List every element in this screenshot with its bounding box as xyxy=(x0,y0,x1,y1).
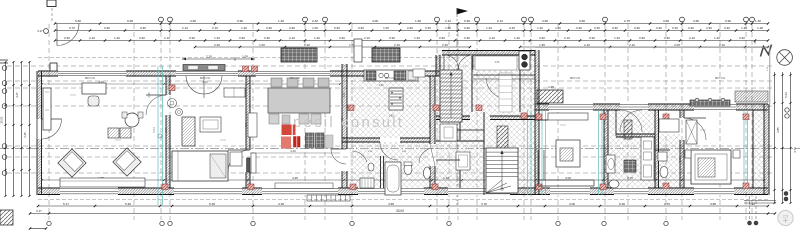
svg-text:0.90: 0.90 xyxy=(139,36,145,40)
svg-text:2.10: 2.10 xyxy=(289,36,295,40)
red hatched columns xyxy=(169,85,175,91)
double door bedroom2 top xyxy=(186,76,204,94)
svg-text:5.60: 5.60 xyxy=(75,19,81,23)
svg-text:3.70: 3.70 xyxy=(481,202,487,206)
hatch corner block bottom-left xyxy=(0,210,13,225)
top-left column marker xyxy=(47,0,56,7)
white landing strip xyxy=(499,73,512,112)
hatch kitchen floor xyxy=(350,76,430,138)
top dimension chain line 4 xyxy=(195,46,470,48)
svg-text:0.45: 0.45 xyxy=(509,26,515,30)
svg-text:0.17: 0.17 xyxy=(36,209,42,213)
windows top wall left xyxy=(58,70,126,76)
svg-text:BRH 0.90: BRH 0.90 xyxy=(385,78,396,80)
teal section strip left xyxy=(157,66,159,205)
tv board left wall xyxy=(43,88,51,130)
windows bottom wall xyxy=(60,187,118,195)
vanity counter bath xyxy=(641,137,654,180)
hatch top right corner slab xyxy=(735,91,768,102)
svg-text:0.96: 0.96 xyxy=(266,26,272,30)
svg-text:2.05: 2.05 xyxy=(495,61,500,64)
svg-text:1.20: 1.20 xyxy=(486,26,492,30)
svg-text:0.90: 0.90 xyxy=(245,122,248,127)
svg-text:0.90: 0.90 xyxy=(656,26,662,30)
svg-text:BRH 0.90: BRH 0.90 xyxy=(290,78,301,80)
svg-text:0.95: 0.95 xyxy=(127,19,133,23)
svg-text:4.45: 4.45 xyxy=(292,176,298,180)
stair block top wall xyxy=(442,51,535,56)
svg-text:0.90: 0.90 xyxy=(334,26,340,30)
svg-text:3.66: 3.66 xyxy=(663,19,669,23)
bottom dimension chain line 2 xyxy=(30,213,775,215)
wall y150 small right xyxy=(655,149,670,151)
svg-text:1.20: 1.20 xyxy=(555,26,561,30)
porch bedroom2 xyxy=(183,65,225,71)
wall bedroom2-dining x246 xyxy=(246,76,250,150)
svg-text:0.90: 0.90 xyxy=(358,26,364,30)
svg-text:2.70: 2.70 xyxy=(627,176,633,180)
svg-text:0.45: 0.45 xyxy=(425,26,431,30)
svg-text:0.30: 0.30 xyxy=(619,202,625,206)
red columns at dining wall top xyxy=(243,66,249,72)
svg-text:0.90: 0.90 xyxy=(576,26,582,30)
sideboard dining bottom xyxy=(275,183,333,189)
toilet right of tub xyxy=(404,164,412,175)
svg-text:0.90: 0.90 xyxy=(535,147,538,152)
study chair hatched xyxy=(560,148,573,161)
svg-text:0.90: 0.90 xyxy=(464,36,470,40)
door arc left wall xyxy=(42,118,62,120)
svg-text:0.90: 0.90 xyxy=(439,36,445,40)
planter grid bar 1 xyxy=(281,48,317,62)
svg-text:0.90: 0.90 xyxy=(612,26,618,30)
svg-text:1.20: 1.20 xyxy=(114,36,120,40)
svg-text:2.10: 2.10 xyxy=(489,36,495,40)
svg-text:1.20: 1.20 xyxy=(414,36,420,40)
svg-text:0.90: 0.90 xyxy=(664,36,670,40)
svg-text:2.20: 2.20 xyxy=(206,55,212,59)
svg-text:1.60: 1.60 xyxy=(415,19,421,23)
svg-text:1.05: 1.05 xyxy=(312,26,318,30)
svg-text:0.90: 0.90 xyxy=(407,26,413,30)
small box above kitchen xyxy=(354,39,362,62)
door arc dining to kitchen xyxy=(331,149,346,164)
svg-text:2.10: 2.10 xyxy=(182,26,188,30)
pillow bedroom2 xyxy=(210,154,226,178)
terrace boundary faint xyxy=(535,47,770,49)
svg-text:1.95: 1.95 xyxy=(548,85,554,89)
study L counter xyxy=(537,150,539,186)
svg-text:5.30: 5.30 xyxy=(209,202,215,206)
wall kitchen-hall x430 xyxy=(430,76,435,144)
svg-text:1.50: 1.50 xyxy=(445,26,451,30)
svg-text:0.90: 0.90 xyxy=(724,26,730,30)
svg-text:2.10: 2.10 xyxy=(584,43,590,47)
svg-text:1.00: 1.00 xyxy=(259,43,265,47)
hall cupboard lower xyxy=(456,152,470,170)
logo white seams xyxy=(281,135,301,137)
svg-text:2.10: 2.10 xyxy=(689,36,695,40)
washer bath right xyxy=(624,160,636,172)
svg-text:4.27: 4.27 xyxy=(15,92,19,98)
svg-text:2 5: 2 5 xyxy=(783,215,788,219)
top dimension chain line 2 xyxy=(55,30,768,32)
light chair behind xyxy=(325,135,333,148)
svg-text:1.28: 1.28 xyxy=(757,26,763,30)
cabinet bedroom2 right xyxy=(224,88,245,97)
bottom grid bubbles xyxy=(47,221,51,225)
svg-text:3.60: 3.60 xyxy=(190,19,196,23)
dining table xyxy=(268,88,330,113)
door arc bath to hall xyxy=(419,148,434,163)
stair winders xyxy=(486,180,502,193)
svg-text:25.51: 25.51 xyxy=(0,116,4,123)
corridor wall y116 center xyxy=(436,116,470,120)
bed bedroom4 xyxy=(691,150,731,184)
wall x655 xyxy=(655,110,659,188)
short chain lines right end xyxy=(744,200,776,202)
svg-text:5.17: 5.17 xyxy=(63,202,69,206)
grid bubbles top xyxy=(159,17,164,22)
dining chairs top row xyxy=(271,78,282,87)
svg-text:0.90: 0.90 xyxy=(343,92,346,97)
wall y138 kitchen-bath xyxy=(342,138,380,142)
svg-text:0.90: 0.90 xyxy=(688,26,694,30)
svg-text:3.66: 3.66 xyxy=(579,19,585,23)
svg-text:4.40: 4.40 xyxy=(202,80,208,84)
hatch bathroom mid floor xyxy=(606,110,655,188)
svg-text:BRH 0.90: BRH 0.90 xyxy=(570,78,581,80)
svg-text:2.10: 2.10 xyxy=(212,26,218,30)
svg-text:0.90: 0.90 xyxy=(189,36,195,40)
dark circle fixtures xyxy=(519,51,530,70)
roof overhang dashed line lower xyxy=(38,199,768,201)
left dimension vertical lines xyxy=(5,62,7,196)
svg-text:0.90: 0.90 xyxy=(589,36,595,40)
svg-text:4.65: 4.65 xyxy=(388,202,394,206)
small bath fixtures far xyxy=(659,119,679,132)
round table xyxy=(125,113,139,127)
chair bedroom2 xyxy=(200,117,221,132)
logo red block A xyxy=(282,125,296,136)
armchair 1 rotated xyxy=(58,149,86,177)
bottom dimension chain line 1 xyxy=(38,205,768,207)
closet bedroom4 xyxy=(686,120,697,144)
teal strip x529 xyxy=(527,110,529,195)
svg-text:2.25: 2.25 xyxy=(23,132,27,138)
svg-text:BRH 0.90: BRH 0.90 xyxy=(85,78,96,80)
svg-text:3.86: 3.86 xyxy=(378,83,384,87)
svg-text:6.70: 6.70 xyxy=(69,26,75,30)
svg-text:0.90: 0.90 xyxy=(389,36,395,40)
dining chairs bottom row xyxy=(269,114,279,124)
hatch hall and stair floor xyxy=(436,50,535,195)
teal strip x600 and wall xyxy=(598,110,600,195)
interior dim line y84 upper xyxy=(42,83,340,85)
window sill bar with pots xyxy=(690,100,730,106)
hall cupboards xyxy=(440,124,457,141)
corridor wall y141 xyxy=(436,140,484,142)
study shelf top xyxy=(548,113,588,120)
dark bubbles right edge xyxy=(784,192,788,196)
svg-text:3.66: 3.66 xyxy=(693,19,699,23)
door arc stair mid xyxy=(486,78,506,99)
radiator bath xyxy=(624,120,632,139)
pillow bedroom4 xyxy=(698,158,715,177)
hatch right edge strip xyxy=(753,110,767,188)
wall living-bedroom2 x166 xyxy=(166,76,170,95)
svg-text:2.10: 2.10 xyxy=(629,43,635,47)
svg-text:2.70: 2.70 xyxy=(664,202,670,206)
svg-text:2.20: 2.20 xyxy=(304,43,310,47)
bed bedroom2 xyxy=(172,151,228,181)
wc room white top xyxy=(475,56,517,70)
gate swing arc top-left xyxy=(57,24,79,46)
door opening left wall xyxy=(36,119,43,139)
plant spiral bedroom2 xyxy=(168,99,177,108)
svg-text:1.05: 1.05 xyxy=(383,26,389,30)
study top shelf wall xyxy=(535,119,548,121)
kitchen small boxes right xyxy=(413,69,425,77)
stair main flight xyxy=(486,148,518,193)
svg-text:2.10: 2.10 xyxy=(364,36,370,40)
svg-text:3.66: 3.66 xyxy=(542,19,548,23)
double door bath entrance xyxy=(620,110,642,132)
mini sink left xyxy=(368,163,374,171)
svg-text:0.90: 0.90 xyxy=(64,36,70,40)
vertical axis dashed lines xyxy=(48,24,50,220)
bath divider y134 right xyxy=(616,134,655,137)
svg-text:BRH 0.90: BRH 0.90 xyxy=(200,78,211,80)
svg-text:0.90: 0.90 xyxy=(341,117,344,122)
svg-text:0.90: 0.90 xyxy=(239,36,245,40)
bath inner wall x616 xyxy=(615,110,617,136)
hatch bath center floor xyxy=(350,142,430,188)
wc striped cabinet left xyxy=(360,178,374,188)
svg-text:33.00: 33.00 xyxy=(396,209,404,213)
svg-text:0.90: 0.90 xyxy=(604,147,607,152)
svg-text:2.12: 2.12 xyxy=(497,19,503,23)
svg-text:2.42: 2.42 xyxy=(312,19,318,23)
svg-text:0.45: 0.45 xyxy=(672,26,678,30)
corridor wall y130 xyxy=(455,129,484,131)
svg-text:0.90: 0.90 xyxy=(725,19,731,23)
logo red block B xyxy=(281,137,291,149)
svg-text:0.90: 0.90 xyxy=(739,36,745,40)
exterior steps bottom center xyxy=(307,195,350,201)
svg-text:0.90: 0.90 xyxy=(165,127,168,132)
top dimension chain line 1 xyxy=(55,23,768,25)
bottom left small chain xyxy=(30,228,46,230)
stair vertical flight xyxy=(440,70,462,122)
svg-text:3.17: 3.17 xyxy=(37,29,43,33)
right grid bubbles xyxy=(785,108,789,112)
windows top wall right xyxy=(549,103,593,110)
wall below wc room xyxy=(473,74,535,76)
sofa bottom living xyxy=(60,178,145,187)
svg-text:4.73: 4.73 xyxy=(793,147,797,153)
top wall left section xyxy=(38,71,460,76)
svg-text:0.90: 0.90 xyxy=(706,26,712,30)
svg-text:0.90: 0.90 xyxy=(140,26,146,30)
svg-text:1.20: 1.20 xyxy=(241,26,247,30)
top dimension chain line 3 xyxy=(55,40,768,42)
svg-text:1.20: 1.20 xyxy=(514,36,520,40)
wall x753 xyxy=(752,110,754,188)
dim line with arrows bedroom2 xyxy=(182,58,255,60)
stamp circle xyxy=(778,210,793,225)
bedside tables bedroom4 xyxy=(685,150,691,158)
wall x460 hall xyxy=(459,120,461,140)
interior dimension line y180 xyxy=(42,179,764,181)
bedside bedroom2 xyxy=(230,152,242,166)
svg-text:2.12: 2.12 xyxy=(445,19,451,23)
svg-text:4.30: 4.30 xyxy=(278,202,284,206)
door arc bath center xyxy=(352,151,367,162)
svg-text:3.00: 3.00 xyxy=(569,202,575,206)
svg-text:1.40: 1.40 xyxy=(278,19,284,23)
stair walk line with arrow xyxy=(501,153,503,189)
svg-text:3.85: 3.85 xyxy=(710,202,716,206)
svg-text:2.75: 2.75 xyxy=(624,19,630,23)
dark bubbles bottom right xyxy=(748,221,752,225)
svg-text:BRH 0.90: BRH 0.90 xyxy=(715,78,726,80)
stair dark stub corridor xyxy=(497,126,508,152)
ottoman tables xyxy=(108,128,119,138)
svg-text:0.96: 0.96 xyxy=(237,19,243,23)
top wall right section xyxy=(535,104,768,110)
svg-text:3.85: 3.85 xyxy=(776,127,780,133)
cabinet dining left xyxy=(248,113,257,137)
svg-text:4.00: 4.00 xyxy=(372,19,378,23)
armchair 2 rotated xyxy=(113,148,141,176)
svg-text:2.10: 2.10 xyxy=(394,43,400,47)
svg-text:4.46: 4.46 xyxy=(290,149,296,153)
svg-text:0.90: 0.90 xyxy=(464,19,470,23)
svg-text:2.10: 2.10 xyxy=(164,36,170,40)
svg-text:2.10: 2.10 xyxy=(89,36,95,40)
svg-text:0.90: 0.90 xyxy=(634,26,640,30)
gray chair square left xyxy=(282,115,290,124)
wall x472 upper xyxy=(471,56,473,112)
svg-text:0.96: 0.96 xyxy=(104,26,110,30)
svg-text:0.90: 0.90 xyxy=(148,92,151,97)
svg-text:0.45: 0.45 xyxy=(594,26,600,30)
svg-text:0.90: 0.90 xyxy=(339,36,345,40)
north symbol xyxy=(777,50,793,66)
svg-text:1.20: 1.20 xyxy=(714,36,720,40)
planter grid bar 2 xyxy=(372,48,400,62)
svg-text:0.90: 0.90 xyxy=(539,36,545,40)
logo red block C xyxy=(294,136,301,147)
kitchen counter with appliances xyxy=(364,70,418,81)
svg-text:2.10: 2.10 xyxy=(719,43,725,47)
svg-text:0.90: 0.90 xyxy=(654,162,657,167)
wall x680 with door xyxy=(680,110,684,118)
svg-text:0.90: 0.90 xyxy=(679,157,682,162)
section line horizontal dash-dot xyxy=(0,148,800,150)
svg-text:0.90: 0.90 xyxy=(752,147,755,152)
wall x520 xyxy=(519,50,521,112)
tall cabinet dining left wall xyxy=(251,153,256,173)
wall dining-kitchen x342 xyxy=(342,64,347,149)
extra small marks rooms xyxy=(70,94,76,96)
section line vertical x458 with flag xyxy=(457,8,469,15)
bathtub center vertical xyxy=(385,162,401,195)
kitchen table striped xyxy=(389,88,403,110)
sink bath right xyxy=(606,155,615,173)
svg-text:0.90: 0.90 xyxy=(429,122,432,127)
svg-text:0.90: 0.90 xyxy=(639,36,645,40)
svg-text:5.40: 5.40 xyxy=(125,202,131,206)
bottom wall xyxy=(38,188,768,195)
hatch small bath floor xyxy=(655,134,680,188)
svg-text:2.05: 2.05 xyxy=(674,43,680,47)
svg-text:1.30: 1.30 xyxy=(755,19,761,23)
svg-text:0.90: 0.90 xyxy=(464,26,470,30)
wall x484 xyxy=(483,112,485,195)
svg-text:1.20: 1.20 xyxy=(314,36,320,40)
svg-text:2.10: 2.10 xyxy=(564,36,570,40)
toilet bath right xyxy=(609,180,619,188)
svg-text:1.90: 1.90 xyxy=(388,114,394,118)
right dimension vertical lines xyxy=(774,72,776,203)
dark hatched chairs right of logo xyxy=(306,133,315,148)
wall study-bath x604 xyxy=(604,110,608,188)
svg-text:1.95: 1.95 xyxy=(539,43,545,47)
chimney top-left xyxy=(50,63,57,71)
svg-text:0.90: 0.90 xyxy=(264,36,270,40)
left grid bubbles xyxy=(2,66,7,71)
study desk xyxy=(556,140,580,167)
wall y160 small xyxy=(436,159,460,161)
svg-text:1.20: 1.20 xyxy=(614,36,620,40)
horizontal axis dashed lines xyxy=(7,65,772,67)
main division wall x535 xyxy=(535,50,539,195)
svg-text:2.20: 2.20 xyxy=(214,43,220,47)
teal strip x543 xyxy=(541,110,543,195)
svg-text:1.20: 1.20 xyxy=(741,26,747,30)
top-left small mark xyxy=(0,59,8,61)
wardrobe bedroom2 vertical xyxy=(182,117,195,146)
hatch balcony slab xyxy=(537,90,563,103)
double door hall top xyxy=(444,55,459,70)
sink right wall xyxy=(424,167,431,179)
svg-text:1.20: 1.20 xyxy=(214,36,220,40)
desk living xyxy=(82,83,106,94)
svg-text:3.00: 3.00 xyxy=(565,176,571,180)
svg-text:5.23: 5.23 xyxy=(784,92,788,98)
dining dim line xyxy=(250,152,340,154)
right exterior wall xyxy=(764,104,769,195)
svg-text:5.04: 5.04 xyxy=(152,127,156,133)
roof overhang dashed line upper xyxy=(38,57,458,59)
svg-text:1.10: 1.10 xyxy=(443,176,449,180)
teal strip x746 xyxy=(743,110,745,190)
desk chair xyxy=(88,96,99,106)
svg-text:1.00: 1.00 xyxy=(242,55,248,59)
bath divider wall x380 xyxy=(380,156,382,188)
svg-text:2.30: 2.30 xyxy=(442,43,448,47)
svg-text:1.12: 1.12 xyxy=(749,202,755,206)
svg-text:1.20: 1.20 xyxy=(537,26,543,30)
left exterior wall xyxy=(37,71,42,195)
svg-text:0.90: 0.90 xyxy=(289,26,295,30)
